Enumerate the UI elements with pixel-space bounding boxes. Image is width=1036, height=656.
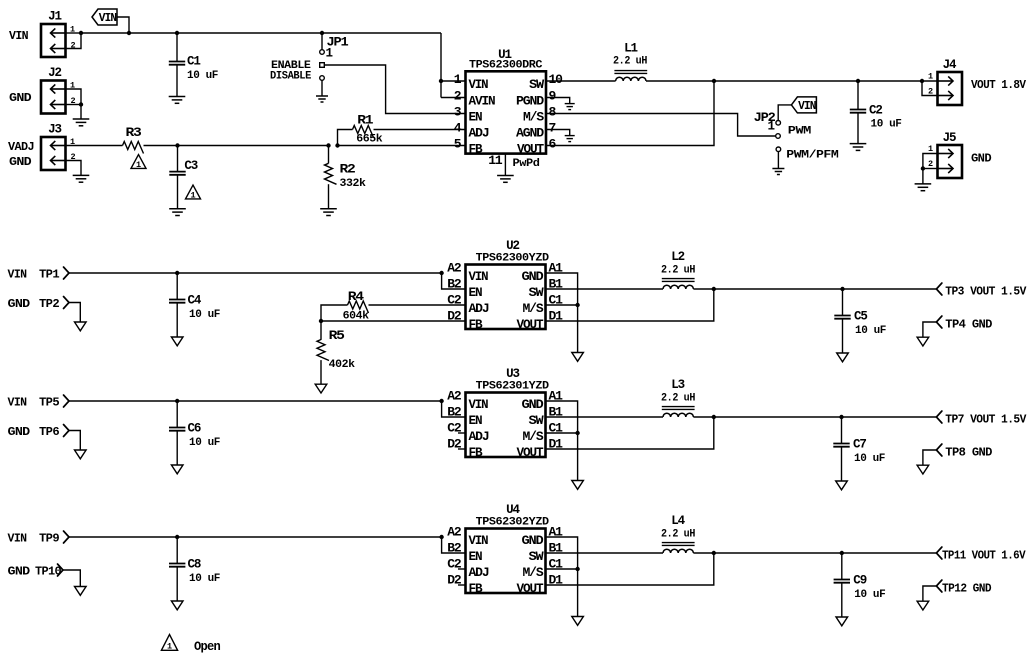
svg-text:C5: C5 — [854, 310, 867, 324]
svg-text:VIN: VIN — [8, 533, 28, 546]
wire TP2 to ground — [69, 303, 80, 323]
wire U3 M/S tie — [546, 432, 578, 434]
C5 value — [855, 325, 886, 337]
svg-text:TPS62300DRC: TPS62300DRC — [469, 59, 543, 71]
capacitor C8 plates — [169, 564, 185, 567]
svg-text:SW: SW — [529, 414, 545, 428]
U2 pin A2 letter — [447, 261, 462, 276]
svg-text:TP12 GND: TP12 GND — [942, 583, 992, 596]
U4 pin B2 letter — [447, 541, 462, 556]
U3 pin FB name — [469, 446, 484, 460]
J3 GND label — [9, 156, 32, 169]
junction ADJ branch on FB net — [335, 143, 339, 147]
wire U2 M/S tie — [546, 304, 578, 306]
svg-text:Open: Open — [194, 640, 220, 654]
open ground below TP6 — [75, 450, 87, 459]
C6 value — [189, 437, 220, 449]
junction C4 on input rail — [175, 271, 179, 275]
svg-text:L3: L3 — [671, 378, 684, 392]
U4 pin FB name — [469, 582, 484, 596]
JP1 pin 1 number — [326, 47, 333, 61]
svg-text:J3: J3 — [48, 123, 61, 137]
L4 refdes — [671, 514, 685, 528]
C8 value — [189, 573, 220, 585]
svg-text:EN: EN — [469, 414, 483, 428]
svg-text:TP3 VOUT 1.5V: TP3 VOUT 1.5V — [945, 286, 1026, 299]
wire U4 VOUT tie — [546, 553, 714, 585]
J5 pin 1 number — [928, 144, 933, 154]
wire J1 pin1 to VIN rail — [66, 32, 82, 34]
U1 pin 4 name — [469, 126, 490, 140]
J4 pin 1 number — [928, 72, 933, 82]
connector J2 body — [41, 81, 66, 114]
svg-text:AVIN: AVIN — [469, 94, 496, 108]
C9 refdes — [853, 574, 866, 588]
U2 pin B2 letter — [447, 277, 462, 292]
svg-text:10 uF: 10 uF — [871, 119, 902, 131]
C9 value — [854, 589, 885, 601]
Open legend text — [194, 640, 220, 654]
wire C8 lower lead — [176, 567, 178, 601]
svg-text:EN: EN — [469, 110, 483, 124]
junction U2 VOUT tie — [712, 287, 716, 291]
DISABLE label — [270, 70, 312, 82]
svg-text:10 uF: 10 uF — [854, 453, 885, 465]
L4 body — [662, 543, 695, 553]
U3 pin C2 letter — [447, 421, 462, 436]
svg-text:C4: C4 — [188, 294, 202, 308]
svg-text:U4: U4 — [506, 503, 520, 517]
svg-text:402k: 402k — [329, 359, 356, 371]
wire J3 pin1 to R3 — [66, 145, 123, 147]
U2 pin B1 letter — [549, 277, 564, 292]
U1 pin 5 number — [454, 137, 462, 152]
svg-text:VIN: VIN — [9, 30, 29, 43]
wire U1 PGND — [546, 98, 570, 104]
U1 pin 7 number — [549, 121, 557, 136]
svg-text:DISABLE: DISABLE — [270, 70, 312, 82]
wire C4 upper lead — [176, 273, 178, 300]
ground below J3 — [73, 175, 90, 182]
C8 refdes — [188, 558, 201, 572]
U3 pin ADJ name — [469, 430, 490, 444]
junction JP1 on VIN rail — [320, 31, 324, 35]
U1 pin 1 name — [469, 78, 489, 92]
svg-text:10: 10 — [549, 72, 564, 87]
U1 PwPd label — [513, 158, 540, 170]
open ground below U4 — [572, 617, 584, 626]
junction C8 on input rail — [175, 535, 179, 539]
C2 refdes — [869, 104, 882, 118]
svg-text:332k: 332k — [340, 178, 367, 190]
svg-text:GND: GND — [9, 92, 32, 105]
U3 pin M/S name — [523, 430, 545, 444]
U3 pin D2 letter — [447, 437, 462, 452]
svg-text:GND: GND — [971, 153, 992, 166]
svg-text:665k: 665k — [356, 134, 383, 146]
svg-text:U2: U2 — [506, 239, 519, 253]
U4 pin ADJ name — [469, 566, 490, 580]
U1 pin 11 number — [488, 153, 503, 168]
U1 pin 5 name — [469, 142, 484, 156]
wire R1 to U1 ADJ — [374, 129, 466, 131]
ground below R2 — [320, 209, 337, 216]
wire M/S — [546, 114, 776, 137]
resistor R1 body — [353, 126, 374, 138]
junction J4 pin2 branch — [920, 79, 924, 83]
capacitor C1 plates — [169, 62, 185, 65]
junction VOUT rail — [712, 79, 716, 83]
wire C2 lower lead — [857, 113, 859, 144]
U2 pin FB name — [469, 318, 484, 332]
svg-text:M/S: M/S — [523, 566, 545, 580]
J1 VIN label — [9, 30, 29, 43]
junction U2 VIN/EN tie — [439, 271, 443, 275]
svg-text:8: 8 — [549, 105, 557, 120]
wire R5 upper lead — [320, 321, 322, 340]
wire U4 EN tie — [442, 537, 466, 553]
U2 pin D2 letter — [447, 309, 462, 324]
svg-text:EN: EN — [469, 550, 483, 564]
wire U2 ADJ to R4 — [369, 304, 466, 306]
U4 pin A2 letter — [447, 525, 462, 540]
svg-text:VIN: VIN — [99, 12, 117, 25]
wire U4 GND to open ground — [546, 537, 578, 617]
wire L4 to TP11 — [693, 552, 936, 554]
wire C3 upper lead — [177, 146, 179, 172]
U1 pin 8 number — [549, 105, 557, 120]
U2 pin GND name — [522, 270, 545, 284]
junction C7 on output rail — [839, 415, 843, 419]
U3 pin B2 letter — [447, 405, 462, 420]
junction C5 on output rail — [840, 287, 844, 291]
junction C1 — [175, 31, 179, 35]
L4 value — [661, 529, 695, 541]
TP6 GND label — [8, 426, 31, 439]
TP1 name — [39, 269, 60, 282]
open flag 1 below C3 — [186, 185, 201, 200]
C2 value — [871, 119, 902, 131]
wire U4 ADJ stub — [458, 568, 466, 570]
svg-text:U3: U3 — [506, 367, 519, 381]
svg-text:5: 5 — [454, 137, 462, 152]
U3 pin A1 letter — [549, 389, 564, 404]
svg-text:C6: C6 — [188, 422, 201, 436]
U2 pin C1 letter — [549, 293, 564, 308]
L2 value — [661, 265, 695, 277]
svg-text:2.2 uH: 2.2 uH — [613, 56, 647, 68]
wire J3 pin2 to ground — [66, 161, 82, 176]
U3 pin SW name — [529, 414, 545, 428]
U1 refdes — [498, 48, 511, 62]
J4 pin 2 number — [928, 87, 933, 97]
svg-text:SW: SW — [529, 286, 545, 300]
svg-text:R1: R1 — [357, 114, 373, 128]
U1 pin 8 name — [523, 110, 545, 124]
ground below C3 — [169, 209, 186, 216]
svg-text:2: 2 — [454, 89, 462, 104]
PWM label — [788, 126, 812, 138]
svg-text:SW: SW — [529, 78, 545, 92]
JP1 pin 1 circle — [320, 50, 325, 55]
wire U2 GND to open ground — [546, 273, 578, 353]
svg-text:B2: B2 — [447, 405, 462, 420]
TP10 name — [35, 566, 62, 579]
open ground below TP2 — [75, 322, 87, 331]
U4 part number — [476, 517, 550, 529]
wire J5 pin2 — [923, 168, 938, 170]
VIN net flag symbol — [92, 9, 117, 25]
junction U3 VOUT tie — [712, 415, 716, 419]
JP1 pin 2 square (ENABLE) — [320, 63, 325, 68]
svg-text:C8: C8 — [188, 558, 201, 572]
L1 body — [614, 71, 647, 81]
svg-text:FB: FB — [469, 446, 484, 460]
wire U4 M/S tie — [546, 568, 578, 570]
wire TP10 to ground — [63, 570, 80, 587]
U4 pin M/S name — [523, 566, 545, 580]
svg-text:J5: J5 — [943, 131, 956, 145]
TP3 label — [945, 286, 1026, 299]
svg-text:C3: C3 — [184, 159, 197, 173]
open flag 1 below R3 — [131, 155, 146, 170]
svg-text:TP8 GND: TP8 GND — [945, 447, 992, 460]
wire to U1 VIN pin — [441, 80, 466, 82]
wire U1 AGND — [546, 130, 570, 136]
VIN net flag at JP2 — [791, 97, 816, 113]
svg-text:GND: GND — [522, 398, 545, 412]
JP2 pin 2 circle (PWM) — [776, 134, 781, 139]
svg-text:VOUT: VOUT — [517, 446, 545, 460]
wire J5 pin1 — [923, 154, 938, 184]
wire JP2 pin3 to ground — [777, 152, 779, 169]
svg-text:J1: J1 — [48, 10, 61, 24]
U4 refdes — [506, 503, 520, 517]
svg-text:ADJ: ADJ — [469, 430, 490, 444]
wire J2 pin1 — [66, 89, 82, 119]
svg-text:1: 1 — [326, 47, 333, 61]
svg-text:FB: FB — [469, 582, 484, 596]
U3 pin VIN name — [469, 398, 489, 412]
TP1 VIN label — [8, 269, 28, 282]
ground below C1 — [169, 97, 186, 104]
C1 value — [187, 70, 218, 82]
svg-text:R2: R2 — [340, 162, 356, 176]
svg-text:VOUT: VOUT — [517, 142, 545, 156]
svg-text:TPS62301YZD: TPS62301YZD — [476, 381, 550, 393]
svg-text:10 uF: 10 uF — [187, 70, 218, 82]
svg-text:PGND: PGND — [516, 94, 545, 108]
U2 pin EN name — [469, 286, 483, 300]
L1 value — [613, 56, 647, 68]
capacitor C9 plates — [834, 580, 850, 583]
J2 refdes — [48, 66, 61, 80]
U3 body — [466, 393, 546, 458]
junction U4 VOUT tie — [712, 551, 716, 555]
J1 pin 2 number — [70, 41, 75, 51]
svg-text:GND: GND — [8, 298, 31, 311]
U2 pin VOUT name — [517, 318, 545, 332]
test point TP5 — [64, 395, 70, 407]
J2 pin 1 number — [70, 81, 75, 91]
open ground below C6 — [171, 465, 183, 474]
wire L1 to J4 (VOUT 1.8V rail) — [646, 80, 938, 82]
U1 pin 2 number — [454, 89, 462, 104]
capacitor C3 plates — [169, 172, 185, 175]
wire R4 to R5 node — [321, 305, 348, 321]
capacitor C2 plates — [850, 110, 866, 113]
junction C9 on output rail — [840, 551, 844, 555]
J3 VADJ label — [8, 141, 34, 154]
wire TP9 input rail — [69, 536, 442, 538]
resistor R4 body — [348, 301, 369, 313]
resistor R2 body — [325, 163, 337, 184]
VOUT 1.8V label — [971, 79, 1026, 92]
L3 body — [662, 407, 695, 417]
wire U4 SW to L4 — [546, 552, 664, 554]
svg-text:VIN: VIN — [469, 78, 489, 92]
svg-text:ADJ: ADJ — [469, 126, 490, 140]
test point TP6 — [64, 425, 70, 437]
U4 pin D2 letter — [447, 573, 462, 588]
U1 part number — [469, 59, 543, 71]
wire R3 to C3 node — [144, 145, 329, 147]
svg-text:L1: L1 — [624, 42, 637, 56]
test point TP8 — [936, 444, 942, 456]
svg-text:VIN: VIN — [469, 270, 489, 284]
svg-text:B2: B2 — [447, 541, 462, 556]
svg-text:TP9: TP9 — [39, 533, 60, 546]
J2 GND label — [9, 92, 32, 105]
svg-text:GND: GND — [8, 426, 31, 439]
U3 pin EN name — [469, 414, 483, 428]
svg-text:C9: C9 — [853, 574, 866, 588]
U2 pin M/S name — [523, 302, 545, 316]
U4 body — [466, 529, 546, 594]
U3 pin D1 letter — [549, 437, 564, 452]
wire U3 SW to L3 — [546, 416, 664, 418]
junction U1 VIN pin — [439, 79, 443, 83]
R2 refdes — [340, 162, 356, 176]
U3 pin C1 letter — [549, 421, 564, 436]
wire C2 upper lead — [857, 81, 859, 110]
connector J3 body — [41, 137, 66, 170]
wire U2 FB — [321, 320, 466, 322]
svg-text:TP1: TP1 — [39, 269, 60, 282]
J5 pin 2 number — [928, 159, 933, 169]
C5 refdes — [854, 310, 867, 324]
svg-text:C2: C2 — [869, 104, 882, 118]
J1 pin 1 number — [70, 25, 75, 35]
capacitor C6 plates — [169, 428, 185, 431]
svg-text:M/S: M/S — [523, 110, 545, 124]
junction C6 on input rail — [175, 399, 179, 403]
U2 pin A1 letter — [549, 261, 564, 276]
svg-text:VIN: VIN — [469, 534, 489, 548]
svg-text:TP5: TP5 — [39, 397, 60, 410]
connector J4 body — [938, 72, 963, 105]
TP9 name — [39, 533, 60, 546]
U4 pin C2 letter — [447, 557, 462, 572]
U1 pin 9 name — [516, 94, 545, 108]
svg-text:TP11 VOUT 1.6V: TP11 VOUT 1.6V — [942, 550, 1026, 563]
svg-text:AGND: AGND — [516, 126, 545, 140]
svg-text:A2: A2 — [447, 525, 462, 540]
svg-text:A2: A2 — [447, 261, 462, 276]
svg-text:GND: GND — [8, 566, 31, 579]
wire C6 lower lead — [176, 431, 178, 465]
svg-text:TPS62300YZD: TPS62300YZD — [476, 253, 550, 265]
capacitor C5 plates — [834, 316, 850, 319]
wire C7 upper lead — [841, 417, 843, 444]
svg-text:3: 3 — [454, 105, 462, 120]
svg-text:VOUT: VOUT — [517, 582, 545, 596]
svg-text:GND: GND — [9, 156, 32, 169]
svg-text:EN: EN — [469, 286, 483, 300]
wire U2 EN tie — [442, 273, 466, 289]
wire C5 upper lead — [842, 289, 844, 316]
svg-text:C1: C1 — [187, 55, 200, 69]
TP4 label — [945, 319, 992, 332]
svg-text:L2: L2 — [671, 250, 684, 264]
U4 pin B1 letter — [549, 541, 564, 556]
junction R2 on FB net — [326, 143, 330, 147]
svg-text:J4: J4 — [943, 58, 957, 72]
wire VIN rail to AVIN — [440, 33, 442, 98]
wire U4 FB stub — [458, 584, 466, 586]
wire U1 pin 11 stub — [504, 154, 506, 176]
svg-text:TP2: TP2 — [39, 298, 60, 311]
L3 value — [661, 393, 695, 405]
C7 value — [854, 453, 885, 465]
svg-text:FB: FB — [469, 318, 484, 332]
svg-text:TPS62302YZD: TPS62302YZD — [476, 517, 550, 529]
PWM/PFM label — [786, 149, 839, 161]
open ground below TP10 — [75, 587, 87, 596]
test point TP7 — [936, 411, 942, 423]
R4 value — [343, 310, 370, 322]
wire R5 lower lead — [320, 360, 322, 384]
wire L3 to TP7 — [693, 416, 936, 418]
svg-text:VIN: VIN — [469, 398, 489, 412]
svg-text:1: 1 — [167, 642, 172, 652]
C4 value — [189, 309, 220, 321]
svg-text:TP7 VOUT 1.5V: TP7 VOUT 1.5V — [945, 414, 1026, 427]
svg-text:9: 9 — [549, 89, 557, 104]
TP12 label — [942, 583, 992, 596]
svg-text:7: 7 — [549, 121, 557, 136]
U1 pin 3 name — [469, 110, 483, 124]
U3 pin VOUT name — [517, 446, 545, 460]
junction U2 M/S tie — [575, 303, 579, 307]
test point TP1 — [64, 267, 70, 279]
U4 pin D1 letter — [549, 573, 564, 588]
U1 body — [466, 71, 547, 153]
wire R2 upper lead — [328, 146, 330, 164]
svg-text:10 uF: 10 uF — [854, 589, 885, 601]
test point TP11 — [936, 547, 942, 559]
junction U3 VIN/EN tie — [439, 399, 443, 403]
wire U3 VOUT tie — [546, 417, 714, 449]
svg-text:1: 1 — [136, 160, 141, 170]
wire U3 GND to open ground — [546, 401, 578, 481]
test point TP12 — [936, 580, 942, 592]
ground below JP1 — [316, 96, 328, 102]
connector J5 body — [938, 145, 963, 178]
wire R2 lower lead — [328, 184, 330, 209]
TP6 name — [39, 426, 60, 439]
test point TP2 — [64, 297, 70, 309]
